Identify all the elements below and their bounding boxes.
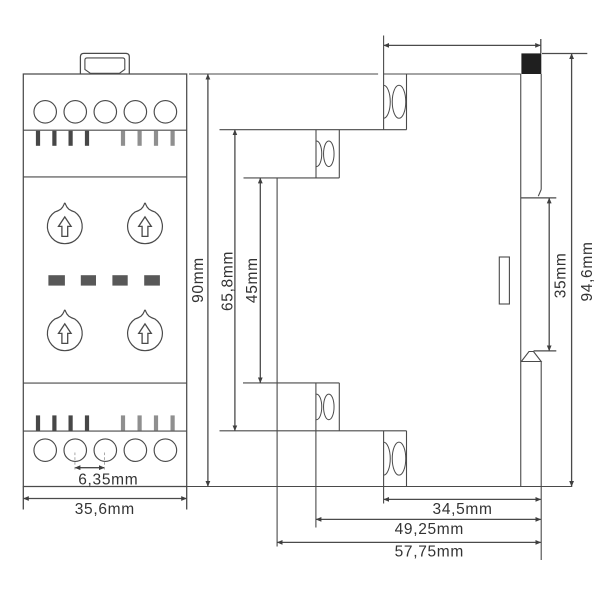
svg-text:6,35mm: 6,35mm [78,472,138,489]
svg-text:35,6mm: 35,6mm [75,501,135,518]
svg-text:34,5mm: 34,5mm [433,501,493,518]
svg-text:90mm: 90mm [190,257,207,303]
svg-text:57,75mm: 57,75mm [395,544,464,561]
svg-text:65,8mm: 65,8mm [219,251,236,311]
svg-text:35mm: 35mm [553,253,570,299]
svg-text:49,25mm: 49,25mm [395,521,464,538]
svg-text:45mm: 45mm [244,257,261,303]
svg-text:94,6mm: 94,6mm [579,241,596,301]
